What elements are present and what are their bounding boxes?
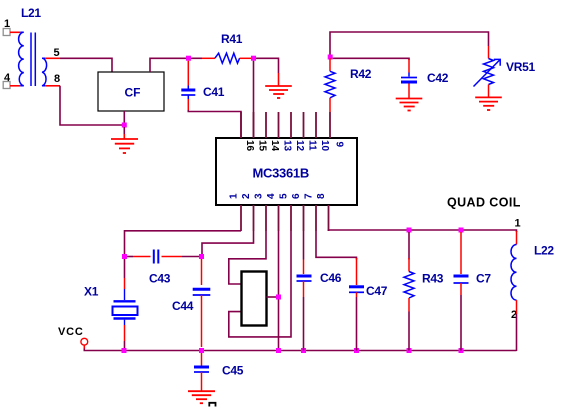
crystal X1 bottom pin bbox=[124, 320, 126, 351]
potentiometer VR51 top pin bbox=[488, 46, 490, 59]
resistor R43 body bbox=[404, 272, 414, 299]
IC U1 pin number 1 bbox=[229, 193, 240, 199]
capacitor C43 plates bbox=[154, 250, 159, 264]
capacitor C47 top pin bbox=[356, 258, 358, 285]
inductor L22 body bbox=[511, 245, 517, 301]
capacitor C43 left wire bbox=[127, 256, 133, 258]
junction J6 C43/C44 node bbox=[199, 254, 204, 259]
wire J3 to C42 bbox=[333, 58, 409, 60]
junction J16 C7/bus bbox=[459, 348, 464, 353]
junction J13 C46/bus bbox=[301, 348, 306, 353]
svg-text:C46: C46 bbox=[320, 271, 342, 285]
ground CF (stem) bbox=[123, 127, 125, 139]
transformer L21 pin 5 label bbox=[54, 47, 60, 59]
capacitor C44 plates bbox=[193, 289, 211, 295]
junction J7 pin4/discriminator bbox=[276, 295, 281, 300]
svg-text:2: 2 bbox=[241, 193, 252, 199]
QUAD COIL label bbox=[447, 196, 521, 210]
IC U1 pin number 6 bbox=[291, 193, 302, 199]
IC U1 name label bbox=[253, 166, 309, 181]
wire R43 to bus bbox=[408, 312, 410, 351]
transformer L21 pin 5 stub bbox=[45, 57, 60, 59]
capacitor C45 label bbox=[222, 364, 244, 378]
wire CF top-right to junction bbox=[150, 58, 189, 72]
capacitor C45 top pin bbox=[201, 353, 203, 366]
inductor L22 pin 2 label bbox=[511, 309, 517, 321]
ground CF (bars) bbox=[111, 139, 138, 153]
transformer L21 secondary winding bbox=[42, 58, 47, 86]
transformer L21 pad pin 4 label bbox=[4, 72, 11, 84]
capacitor C45 bottom pin bbox=[201, 372, 203, 391]
IC U1 pin number 14 bbox=[269, 140, 280, 152]
junction CF ground node bbox=[122, 123, 127, 128]
svg-text:4: 4 bbox=[266, 193, 277, 199]
transformer L21 primary winding bbox=[19, 32, 24, 86]
VCC terminal stem bbox=[83, 345, 85, 349]
wire L22 to bus bbox=[516, 314, 518, 351]
wire IC pin2 to C44 node bbox=[202, 231, 254, 254]
ceramic discriminator box bbox=[242, 272, 267, 326]
svg-text:X1: X1 bbox=[84, 285, 99, 299]
junction J3 R42 node bbox=[328, 55, 333, 60]
capacitor C41 top stem bbox=[187, 86, 189, 89]
capacitor C47 bottom pin bbox=[356, 292, 358, 297]
IC U1 pin number 3 bbox=[254, 193, 265, 199]
transformer L21 pin 8 label bbox=[54, 73, 60, 85]
wire pin5 to CF box bbox=[60, 58, 112, 72]
crystal X1 top electrode bbox=[114, 300, 136, 302]
svg-text:MC3361B: MC3361B bbox=[253, 166, 309, 181]
junction J10 X1/bus bbox=[122, 348, 127, 353]
resistor R41 left pin bbox=[191, 57, 215, 59]
capacitor C46 label bbox=[320, 271, 342, 285]
IC U1 pin number 7 bbox=[304, 193, 315, 199]
junction J9 C7/tank bbox=[459, 228, 464, 233]
resistor R42 label bbox=[350, 67, 372, 81]
resistor R43 label bbox=[422, 272, 444, 286]
transformer L21 pad pin 1 bbox=[3, 29, 10, 36]
wire J2 down to IC pin 15 bbox=[253, 61, 255, 138]
capacitor C43 right wire bbox=[182, 256, 199, 258]
wire pin8 down and right to CF ground junction bbox=[60, 86, 124, 125]
resistor R42 body bbox=[325, 71, 335, 98]
capacitor C7 top pin bbox=[460, 232, 462, 274]
resistor R41 right pin bbox=[240, 57, 251, 59]
svg-text:16: 16 bbox=[244, 140, 255, 152]
ground under C42 (bars) bbox=[396, 99, 423, 111]
IC U1 pin number 5 bbox=[279, 193, 290, 199]
svg-text:C7: C7 bbox=[476, 272, 491, 286]
ground near R41 (bars) bbox=[265, 86, 292, 98]
svg-text:12: 12 bbox=[294, 140, 305, 152]
inductor L22 bottom pin bbox=[516, 300, 518, 314]
transformer L21 pad pin 4 bbox=[3, 82, 10, 89]
IC U1 pin number 15 bbox=[257, 140, 268, 152]
capacitor C42 label bbox=[427, 71, 449, 85]
capacitor C41 plates bbox=[181, 90, 195, 95]
potentiometer VR51 label bbox=[506, 60, 535, 74]
VCC label bbox=[58, 326, 84, 338]
junction J14 C47/bus bbox=[354, 348, 359, 353]
svg-text:15: 15 bbox=[257, 140, 268, 152]
capacitor C41 label bbox=[203, 85, 225, 99]
capacitor C46 bottom pin bbox=[303, 281, 305, 297]
svg-text:L21: L21 bbox=[21, 6, 41, 20]
capacitor C41 top pin bbox=[187, 61, 189, 86]
transformer L21 pin 8 stub bbox=[45, 85, 60, 87]
svg-text:VR51: VR51 bbox=[506, 60, 535, 74]
capacitor C41 bottom stem bbox=[187, 95, 189, 99]
IC U1 bottom pin stubs 1-8 bbox=[241, 205, 329, 231]
transformer L21 core bbox=[31, 33, 35, 87]
svg-text:7: 7 bbox=[304, 193, 315, 199]
ground under C45 (bars) bbox=[188, 391, 215, 403]
wire pin1 to primary bbox=[10, 31, 20, 33]
svg-text:L22: L22 bbox=[534, 244, 554, 258]
svg-text:QUAD COIL: QUAD COIL bbox=[447, 196, 521, 210]
transformer L21 pad pin 1 label bbox=[4, 18, 10, 30]
wire IC pin7 jog to C47 bbox=[316, 231, 357, 260]
inductor L22 label bbox=[534, 244, 554, 258]
capacitor C43 label bbox=[149, 272, 171, 286]
IC U1 pin number 11 bbox=[307, 140, 318, 151]
svg-text:8: 8 bbox=[316, 193, 327, 199]
potentiometer VR51 body bbox=[484, 59, 494, 85]
bottom bus wire bbox=[84, 349, 516, 351]
wire IC pin6 to C46 bbox=[303, 231, 305, 260]
junction J5 X1 top node bbox=[122, 254, 127, 259]
svg-text:C44: C44 bbox=[172, 299, 194, 313]
crystal X1 top pin bbox=[124, 259, 126, 300]
svg-text:3: 3 bbox=[254, 193, 265, 199]
IC U1 pin number 13 bbox=[282, 140, 293, 152]
capacitor C47 label bbox=[366, 284, 388, 298]
transformer L1 label bbox=[21, 6, 41, 20]
ceramic filter CF label bbox=[125, 86, 141, 100]
ceramic filter CF box bbox=[98, 72, 164, 111]
wire pin4 to primary bbox=[10, 85, 20, 87]
VCC terminal circle bbox=[81, 338, 88, 345]
wire tank to R43 bbox=[408, 232, 410, 260]
wire C41 bottom to IC pin 16 bbox=[188, 110, 241, 138]
capacitor C42 bottom pin bbox=[408, 84, 410, 99]
svg-text:11: 11 bbox=[307, 140, 318, 151]
svg-text:R42: R42 bbox=[350, 67, 372, 81]
svg-text:VCC: VCC bbox=[58, 326, 84, 338]
svg-text:8: 8 bbox=[54, 73, 60, 85]
svg-text:1: 1 bbox=[229, 193, 240, 199]
capacitor C42 top stem bbox=[408, 73, 410, 77]
wire CF bottom pin bbox=[123, 111, 125, 127]
resistor R43 top pin bbox=[408, 258, 410, 272]
discriminator right pin stub bbox=[267, 296, 279, 298]
svg-text:R43: R43 bbox=[422, 272, 444, 286]
capacitor C7 plates bbox=[454, 276, 469, 283]
crystal X1 label bbox=[84, 285, 99, 299]
capacitor C42 top pin bbox=[408, 59, 410, 73]
svg-text:C43: C43 bbox=[149, 272, 171, 286]
crystal X1 body bbox=[113, 307, 138, 316]
IC U1 pin number 8 bbox=[316, 193, 327, 199]
potentiometer VR51 arrow bbox=[474, 59, 501, 86]
junction J12 pin4/bus bbox=[276, 348, 281, 353]
wire top tank R42 to VR51 bbox=[330, 32, 489, 56]
IC U1 top pin stubs 16-10 bbox=[241, 112, 330, 138]
resistor R43 bottom pin bbox=[408, 298, 410, 312]
capacitor C7 bottom pin bbox=[460, 283, 462, 295]
svg-text:6: 6 bbox=[291, 193, 302, 199]
svg-text:C42: C42 bbox=[427, 71, 449, 85]
capacitor C46 plates bbox=[297, 276, 312, 281]
svg-text:5: 5 bbox=[279, 193, 290, 199]
svg-text:C47: C47 bbox=[366, 284, 388, 298]
wire IC pin4 down to bus bbox=[278, 231, 280, 351]
svg-text:5: 5 bbox=[54, 47, 60, 59]
wire C7 to bus bbox=[460, 295, 462, 351]
crystal X1 bottom electrode bbox=[114, 317, 136, 319]
capacitor C43 left pin bbox=[133, 256, 151, 258]
IC U1 pin number 2 bbox=[241, 193, 252, 199]
resistor R42 bottom pin to IC pin 9 bbox=[329, 98, 331, 112]
capacitor C44 bottom pin bbox=[201, 295, 203, 347]
IC U1 pin number 9 bbox=[334, 142, 345, 148]
op IC U1 MC3361B box bbox=[216, 138, 357, 205]
junction J15 R43/bus bbox=[407, 348, 412, 353]
junction J8 R43/tank bbox=[407, 228, 412, 233]
inductor L22 top pin bbox=[516, 231, 518, 245]
capacitor C44 top pin bbox=[201, 259, 203, 285]
wire C47 to bus bbox=[356, 297, 358, 351]
capacitor C44 label bbox=[172, 299, 194, 313]
capacitor C47 plates bbox=[349, 287, 364, 293]
capacitor C7 label bbox=[476, 272, 491, 286]
junction J2 R41/pin15 node bbox=[251, 56, 256, 61]
junction J1 C41/R41 node bbox=[186, 56, 191, 61]
svg-text:CF: CF bbox=[125, 86, 141, 100]
svg-text:13: 13 bbox=[282, 140, 293, 152]
svg-text:14: 14 bbox=[269, 140, 280, 152]
inductor L22 pin 1 label bbox=[515, 218, 521, 230]
potentiometer VR51 bottom pin bbox=[488, 85, 490, 98]
svg-text:9: 9 bbox=[334, 142, 345, 148]
wire IC pin3 to discriminator top-left bbox=[229, 231, 266, 284]
wire IC pin8 to tank top wire and L22 bbox=[329, 230, 517, 232]
svg-text:1: 1 bbox=[515, 218, 521, 230]
IC U1 pin number 16 bbox=[244, 140, 255, 152]
svg-text:10: 10 bbox=[319, 140, 330, 152]
stray text mark near C45 ground bbox=[209, 403, 215, 407]
svg-text:C41: C41 bbox=[203, 85, 225, 99]
svg-text:R41: R41 bbox=[221, 32, 243, 46]
wire IC pin5 to discriminator bottom-left bbox=[229, 231, 291, 337]
capacitor C43 right pin bbox=[162, 256, 183, 258]
IC U1 pin number 10 bbox=[319, 140, 330, 152]
junction J11 C44/C45 bus bbox=[199, 348, 204, 353]
ground under VR51 (bars) bbox=[475, 97, 502, 110]
resistor R41 body bbox=[215, 53, 240, 63]
wire C46 to bus bbox=[303, 297, 305, 351]
resistor R41 label bbox=[221, 32, 243, 46]
ground near R41 (stem) bbox=[278, 73, 280, 86]
resistor R42 top pin bbox=[329, 58, 331, 71]
IC U1 pin number 12 bbox=[294, 140, 305, 152]
wire J2 to ground corner bbox=[256, 58, 279, 73]
capacitor C46 top pin bbox=[303, 260, 305, 275]
svg-text:C45: C45 bbox=[222, 364, 244, 378]
capacitor C41 bottom pin bbox=[187, 99, 189, 110]
capacitor C42 plates bbox=[401, 78, 417, 83]
wire IC pin1 to X1 node bbox=[125, 231, 242, 254]
capacitor C45 plates bbox=[194, 367, 209, 372]
IC U1 pin number 4 bbox=[266, 193, 277, 199]
